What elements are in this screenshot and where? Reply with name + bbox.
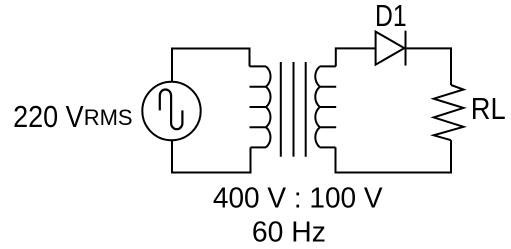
inductor secondary arc 4 [315,127,319,147]
wire secondary top to diode anode [336,48,376,66]
inductor secondary stub 5 [320,146,336,148]
inductor primary arc 3 [266,107,270,127]
inductor secondary stub 1 [320,65,336,67]
svg-text:RL: RL [471,91,506,126]
svg-text:60 Hz: 60 Hz [252,216,326,248]
inductor secondary stub 4 [320,126,336,128]
inductor primary stub 1 [250,65,267,67]
transformer core line 1 [280,62,282,157]
inductor secondary arc 1 [315,66,320,86]
inductor primary arc 2 [266,87,271,107]
diode D1 cathode bar [405,31,407,66]
inductor secondary stub 2 [320,86,336,88]
wire secondary bottom [336,140,452,172]
source V1 sine glyph [160,90,183,130]
inductor primary stub 5 [251,146,267,148]
wire primary bottom [172,140,251,172]
source V1 circle [142,82,200,140]
svg-text:D1: D1 [375,0,407,33]
inductor secondary stub 3 [320,106,336,108]
transformer core line 3 [305,62,307,157]
diode D1 triangle [376,32,405,65]
resistor RL zigzag [434,85,464,140]
svg-text:400 V : 100 V: 400 V : 100 V [213,182,383,214]
wire diode cathode to resistor [406,48,452,85]
inductor primary stub 4 [250,126,267,128]
svg-text:RMS: RMS [84,105,133,130]
wire primary top [172,49,250,82]
transformer core line 2 [293,62,295,157]
inductor secondary arc 2 [315,87,320,107]
inductor primary arc 1 [266,66,271,86]
inductor primary stub 3 [250,106,267,108]
svg-text:220 V: 220 V [13,99,84,134]
inductor primary arc 4 [266,127,270,147]
inductor secondary arc 3 [315,107,319,127]
inductor primary stub 2 [250,86,267,88]
